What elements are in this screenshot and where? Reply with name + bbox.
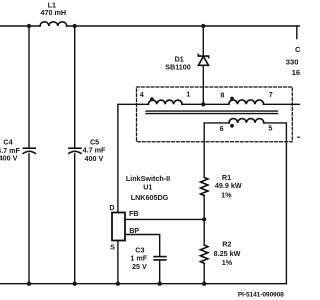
wire output stub right edge [296, 26, 298, 39]
dash fragment right edge [298, 136, 300, 138]
wire top rail left segment [0, 25, 40, 27]
transformer polarity dot pin4 [150, 97, 154, 101]
svg-text:1%: 1% [222, 258, 233, 267]
label C6 output cap (cut at edge) [286, 45, 313, 77]
svg-text:49.9 kW: 49.9 kW [215, 181, 242, 190]
svg-text:5: 5 [268, 124, 272, 133]
inductor L1 [40, 22, 67, 26]
svg-text:6: 6 [220, 124, 224, 133]
svg-text:4: 4 [140, 90, 144, 99]
svg-text:S: S [110, 243, 115, 252]
svg-text:400 V: 400 V [85, 154, 104, 163]
svg-text:470 mH: 470 mH [41, 8, 67, 17]
wire BP from U1 to C3 [125, 235, 160, 284]
wire pin6 to feedback divider [204, 123, 229, 177]
wire primary to D1 node to pin8 [182, 103, 229, 105]
svg-text:7: 7 [269, 90, 273, 99]
wire D1 branch vertical [202, 26, 204, 104]
node junction dots [27, 24, 234, 286]
svg-text:U1: U1 [143, 183, 152, 192]
transformer core lines [146, 111, 278, 114]
capacitor C3 [154, 257, 166, 260]
transformer primary winding pins 4-1 [148, 100, 182, 104]
diode D1 [198, 55, 208, 66]
transformer T1 dashed box [137, 87, 293, 142]
transformer bias winding pins 6-5 [229, 119, 264, 123]
wire R2 to bottom rail [203, 263, 205, 283]
transformer polarity dot pin8 [230, 97, 234, 101]
wire C5 branch vertical [74, 26, 76, 284]
svg-text:25 V: 25 V [132, 262, 147, 271]
svg-text:16 V: 16 V [292, 68, 300, 77]
wire pin7 out to right edge [264, 103, 300, 105]
resistor R2 [201, 245, 208, 263]
wire pin5 down to return [264, 123, 287, 284]
wire FB from U1 to divider node [125, 218, 204, 220]
svg-text:R2: R2 [222, 239, 231, 248]
wire S pin down [117, 241, 119, 284]
wire top rail right segment [67, 25, 300, 27]
wire bottom rail [0, 283, 286, 285]
svg-text:C6: C6 [295, 45, 300, 54]
svg-text:C4: C4 [3, 138, 12, 147]
wire primary left link [118, 104, 148, 212]
op-amp U1 LinkSwitch-II body [112, 213, 125, 241]
svg-text:BP: BP [129, 226, 139, 235]
svg-text:LNK605DG: LNK605DG [131, 193, 169, 202]
svg-text:FB: FB [129, 209, 139, 218]
svg-text:8.25 kW: 8.25 kW [214, 249, 241, 258]
transformer secondary winding pins 8-7 [229, 100, 264, 104]
transformer polarity dot pin6 [230, 124, 234, 128]
capacitor C4 [23, 148, 35, 153]
svg-text:PI-5141-090908: PI-5141-090908 [238, 291, 284, 298]
svg-text:D: D [109, 203, 114, 212]
svg-text:LinkSwitch-II: LinkSwitch-II [126, 174, 170, 183]
svg-text:1: 1 [186, 90, 190, 99]
wire R1 to FB node [203, 196, 205, 245]
svg-text:1%: 1% [221, 191, 232, 200]
svg-text:330 mF: 330 mF [286, 57, 300, 66]
svg-text:8: 8 [220, 90, 224, 99]
resistor R1 [201, 177, 208, 195]
wire C4 branch vertical [28, 26, 30, 284]
svg-text:400 V: 400 V [0, 154, 18, 163]
svg-text:SB1100: SB1100 [165, 63, 191, 72]
capacitor C5 [69, 148, 81, 153]
